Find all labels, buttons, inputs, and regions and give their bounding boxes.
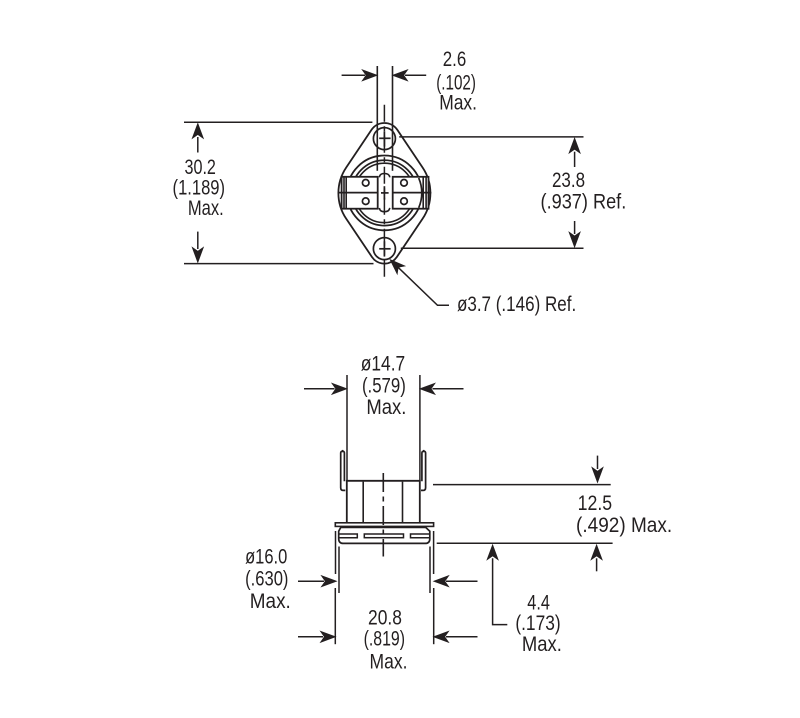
terminal-gap feature line right xyxy=(392,66,394,171)
center crosshair tick xyxy=(381,192,389,194)
top hole crosshair tick xyxy=(379,137,390,139)
right tab rolled-edge line 2 xyxy=(425,177,427,209)
dim 16.0 right arrow xyxy=(446,580,478,582)
svg-text:ø14.7: ø14.7 xyxy=(361,353,405,376)
hidden disc lower arc between tabs xyxy=(379,208,389,212)
right terminal tab side view xyxy=(421,451,426,490)
dim 12.5 down arrow xyxy=(597,456,599,469)
bottom hole crosshair tick xyxy=(379,248,390,250)
dia 16.0 left inner extension line xyxy=(338,547,340,594)
dim 23.8 bottom extension line xyxy=(401,247,584,249)
right tab terminal hole upper xyxy=(401,180,408,187)
dim 16.0 left arrow xyxy=(298,580,324,582)
svg-text:Max.: Max. xyxy=(250,590,291,613)
svg-text:Max.: Max. xyxy=(522,633,562,656)
dim 20.8 left arrow xyxy=(298,636,323,638)
svg-text:(.492) Max.: (.492) Max. xyxy=(576,514,672,537)
dim 23.8 up arrow xyxy=(569,138,580,153)
left tab rolled-edge line 2 xyxy=(345,177,347,209)
bottom mounting hole xyxy=(373,238,395,260)
can interior line left xyxy=(362,482,364,523)
dim 20.8 right arrow xyxy=(446,636,478,638)
dim 12.5 lower extension line xyxy=(437,542,613,544)
svg-text:Max.: Max. xyxy=(188,197,224,220)
front view inner cap circle xyxy=(352,160,417,225)
left terminal tab side view xyxy=(341,451,346,490)
side view dia 14.7 left extension line xyxy=(346,375,348,481)
dia 16.0 right extension line xyxy=(433,531,435,574)
dim 14.7 left arrow xyxy=(304,388,335,390)
dim 12.5 upper extension line xyxy=(433,484,611,486)
spring clip band side view xyxy=(339,527,430,543)
right tab rolled-edge line 1 xyxy=(422,177,424,209)
clip band right slot xyxy=(411,534,430,538)
svg-text:2.6: 2.6 xyxy=(443,48,467,71)
left tab center seam line xyxy=(338,192,378,194)
front view crimp-ring circle xyxy=(355,163,414,222)
left tab rolled-edge line 1 xyxy=(343,177,345,209)
outer circle arc visible across right tab xyxy=(419,178,422,208)
svg-text:ø3.7 (.146) Ref.: ø3.7 (.146) Ref. xyxy=(457,293,576,316)
clip band left slot xyxy=(339,534,357,538)
dim 14.7 right arrow xyxy=(433,388,464,390)
leader line for hole dia 3.7 xyxy=(393,262,449,305)
svg-text:Max.: Max. xyxy=(439,92,477,115)
can body outline side view xyxy=(347,481,420,523)
svg-text:ø16.0: ø16.0 xyxy=(245,545,287,568)
dim 30.2 up arrow xyxy=(192,124,203,139)
svg-text:(.630): (.630) xyxy=(245,567,288,590)
mounting flange plate side view xyxy=(335,523,433,527)
thermostat front view: mounting flange outline xyxy=(338,123,430,264)
hidden disc upper arc between tabs xyxy=(379,174,389,178)
svg-text:(.819): (.819) xyxy=(364,628,405,651)
dia 16.0 right inner extension line xyxy=(429,547,431,594)
svg-text:Max.: Max. xyxy=(366,396,406,419)
front view vertical centerline xyxy=(383,105,385,279)
svg-text:(1.189): (1.189) xyxy=(173,177,226,200)
svg-text:Max.: Max. xyxy=(370,651,408,674)
right tab terminal hole lower xyxy=(401,198,408,205)
center crosshair vertical bar xyxy=(383,186,385,199)
terminal-gap feature line left xyxy=(376,66,378,171)
dim 20.8 right extension line xyxy=(433,588,435,644)
side view vertical centerline xyxy=(382,473,384,557)
svg-text:(.173): (.173) xyxy=(515,612,560,635)
dim 30.2 bottom extension line xyxy=(184,263,374,265)
bottom hole crosshair vertical bar xyxy=(383,241,385,256)
left tab terminal hole upper xyxy=(362,180,369,187)
top mounting hole xyxy=(373,128,395,150)
dim 4.4 up arrow with leader xyxy=(487,545,498,560)
can interior line right xyxy=(402,482,404,523)
side view dia 14.7 right extension line xyxy=(419,375,421,481)
dim 2.6 right arrow xyxy=(405,74,426,76)
right tab center seam line xyxy=(393,192,432,194)
svg-text:20.8: 20.8 xyxy=(368,606,402,629)
dia 16.0 left extension line xyxy=(335,531,337,574)
left terminal tab body (masks circles) xyxy=(342,177,378,209)
dim 20.8 left extension line xyxy=(334,588,336,644)
dim 30.2 down arrow xyxy=(197,232,199,249)
dim 23.8 down arrow xyxy=(574,221,576,234)
dim 30.2 top extension line xyxy=(184,121,372,123)
dim 2.6 left arrow xyxy=(342,74,365,76)
top hole crosshair vertical bar xyxy=(383,131,385,146)
svg-text:23.8: 23.8 xyxy=(552,169,585,192)
right terminal tab body (masks circles) xyxy=(393,177,429,209)
clip band center slot xyxy=(364,534,403,538)
dim 23.8 top extension line xyxy=(399,136,583,138)
front view outer body circle xyxy=(347,156,422,231)
left tab terminal hole lower xyxy=(362,198,369,205)
dim 12.5 up arrow xyxy=(591,545,602,560)
svg-text:(.937) Ref.: (.937) Ref. xyxy=(541,191,627,214)
svg-text:12.5: 12.5 xyxy=(578,492,613,515)
svg-text:(.579): (.579) xyxy=(362,375,406,398)
